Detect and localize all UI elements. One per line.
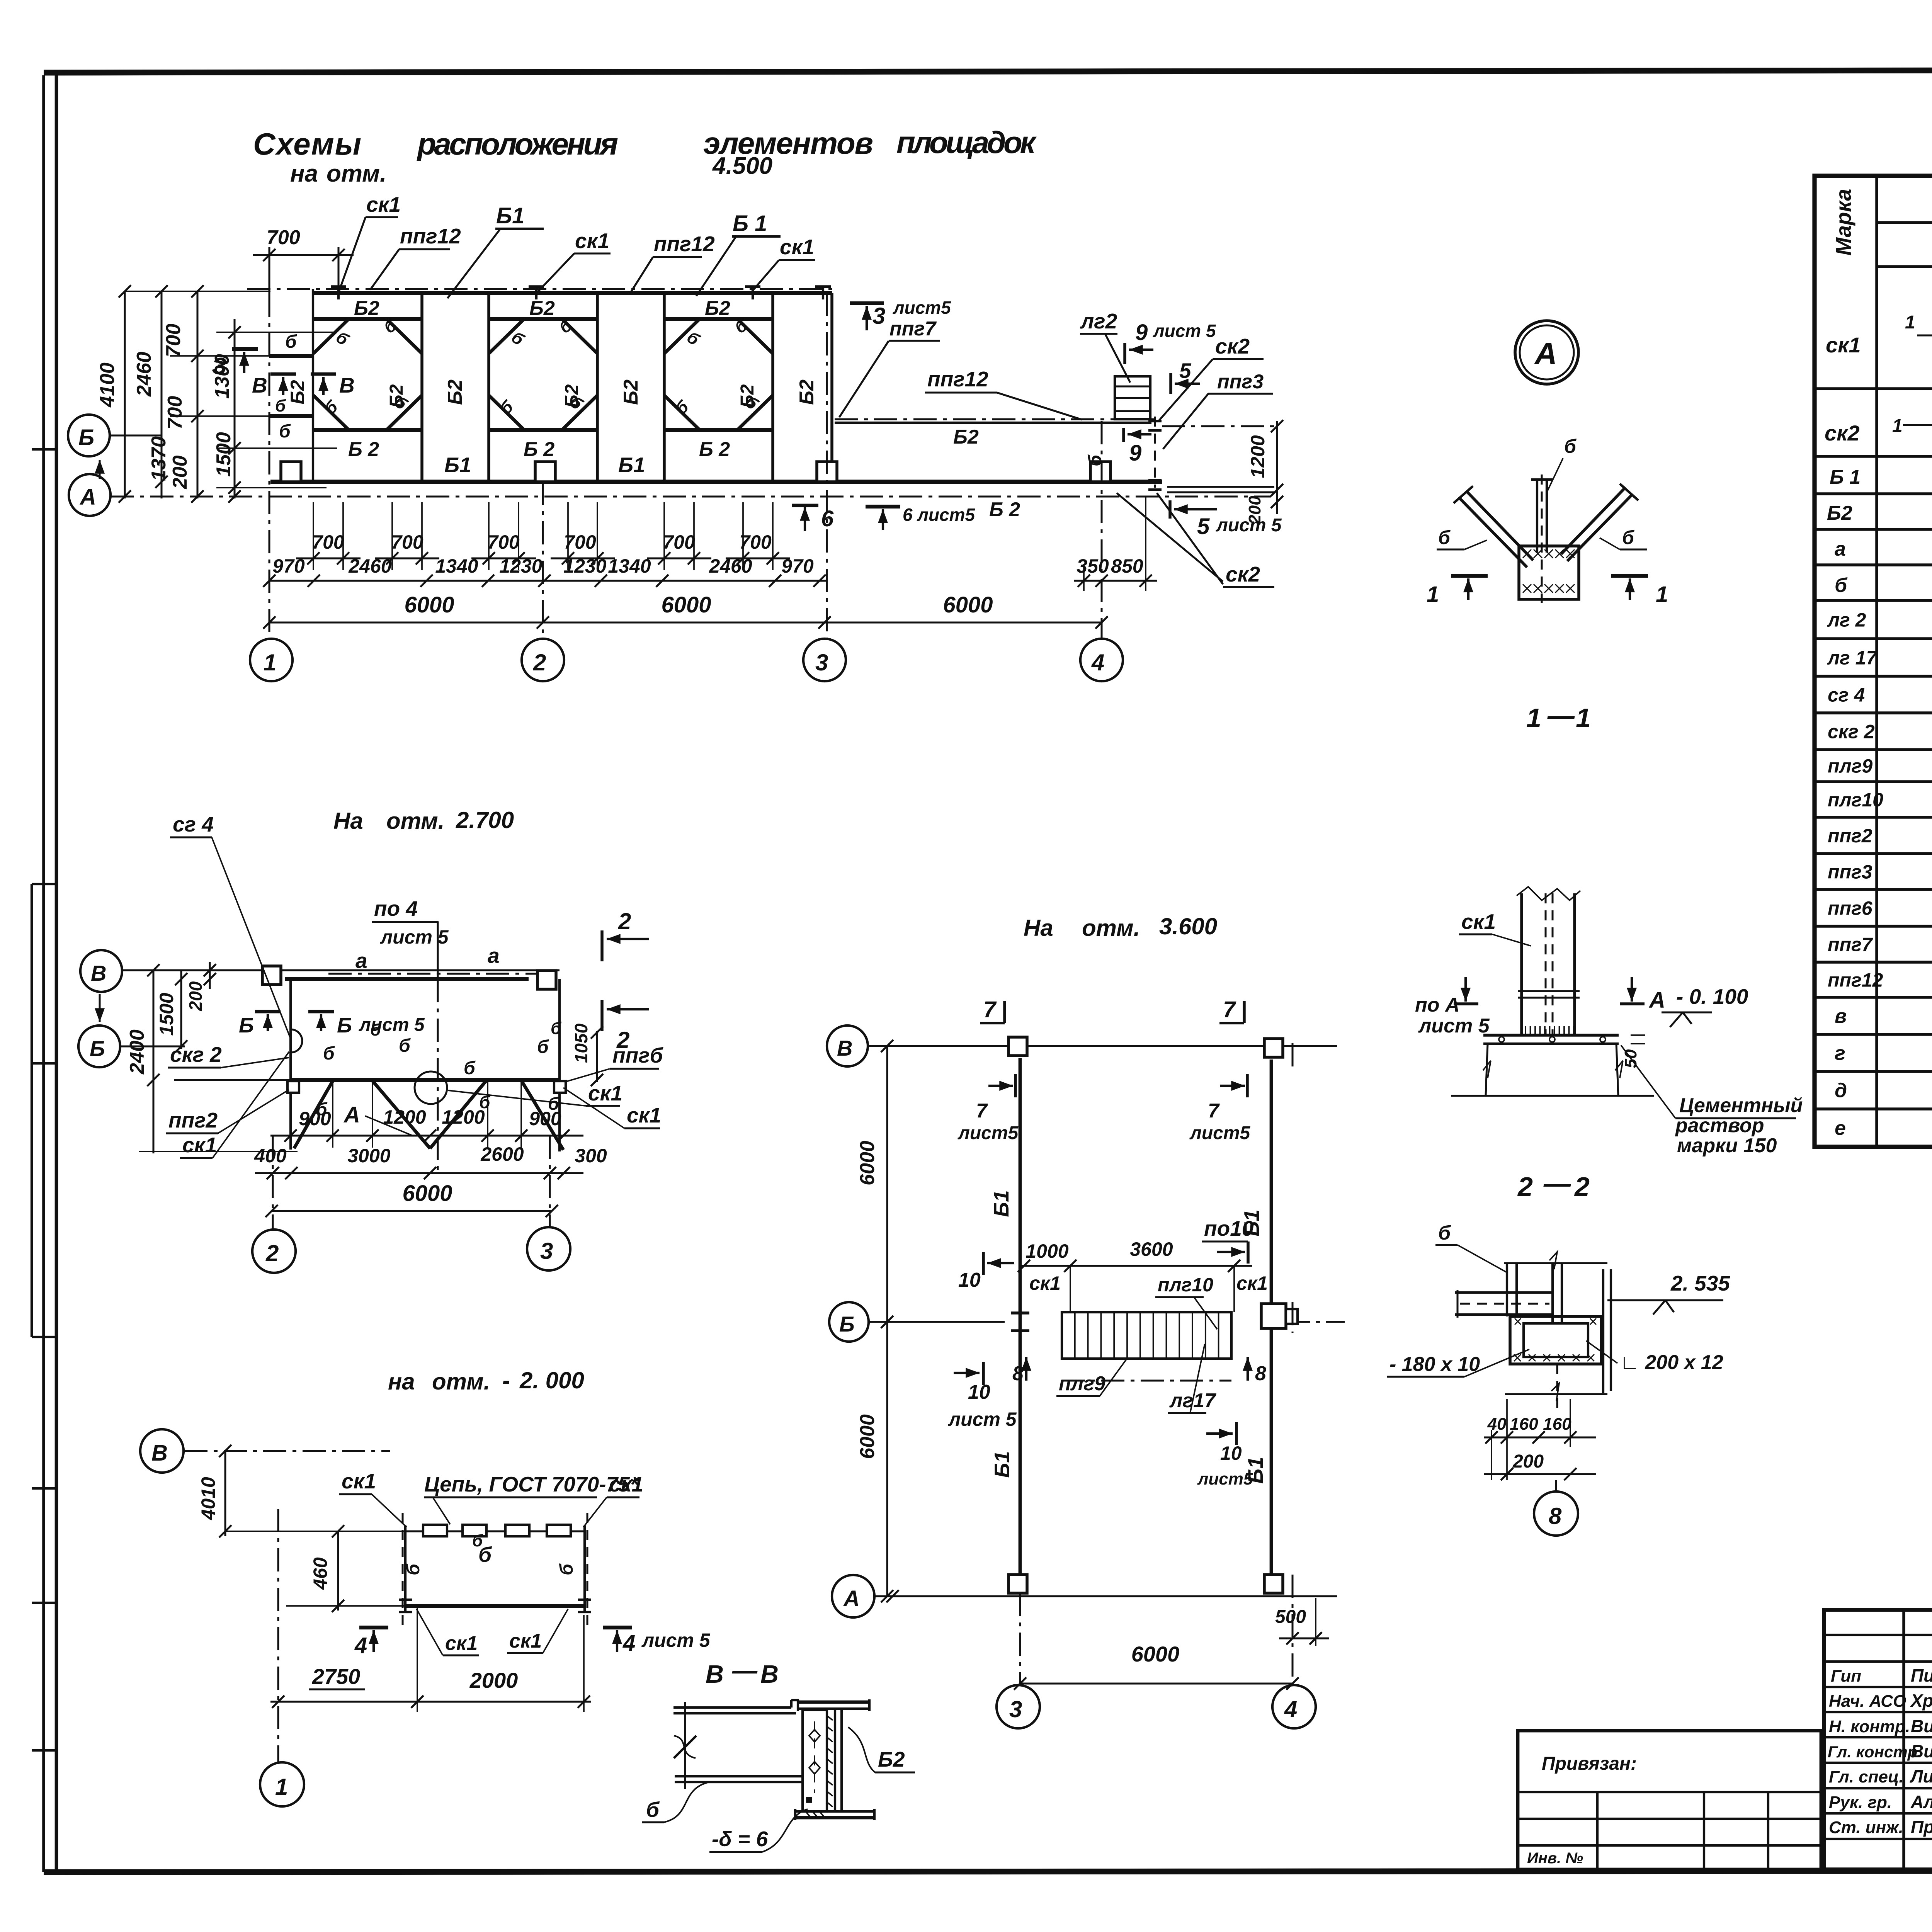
detail В-В left beam bottom lines [675,1775,803,1777]
svg-text:500: 500 [1275,1607,1306,1627]
svg-text:ппг12: ппг12 [654,232,715,256]
plan 4.500 right vertical dim 1200/200 [1276,421,1278,514]
svg-text:1200: 1200 [442,1106,485,1128]
plan -2.000 bottom chord б [405,1604,585,1608]
svg-text:4: 4 [1091,650,1104,675]
svg-text:Б 2: Б 2 [699,438,730,461]
svg-text:6000: 6000 [856,1414,879,1459]
svg-text:Б 1: Б 1 [733,211,767,236]
plan 4.500 dim line 6000x3 [269,622,1102,624]
plan 3.600 grid dash verticals [1019,1593,1021,1685]
detail В-В I-beam bottom flange [795,1810,874,1813]
plan 3.600 axis circle В [827,1026,868,1066]
svg-text:1: 1 [1656,582,1668,607]
plan 4.500 СК1 tick marks on chord [331,285,346,288]
svg-text:В: В [837,1036,852,1060]
svg-text:г: г [1835,1042,1845,1065]
plan 4.500 section mark В left [270,372,296,376]
svg-text:-δ = 6: -δ = 6 [712,1827,768,1851]
svg-text:1: 1 [264,650,276,675]
svg-text:2. 535: 2. 535 [1670,1271,1730,1295]
svg-text:б: б [646,1798,660,1821]
svg-text:2: 2 [618,908,631,934]
svg-text:1230: 1230 [499,555,542,577]
svg-text:по А: по А [1415,994,1460,1016]
axis circle Б [68,415,110,456]
svg-text:лист5: лист5 [893,298,951,318]
plan 4.500 grid verticals to circles [269,294,270,639]
svg-text:В: В [91,961,106,985]
svg-text:700: 700 [312,531,344,553]
svg-text:700: 700 [487,531,520,553]
plan 2.700 dim 6000 [272,1210,552,1212]
svg-text:Б 2: Б 2 [524,438,554,461]
svg-text:лист 5: лист 5 [359,1015,425,1035]
plan 4.500 left bay beam б lower [269,414,313,418]
svg-text:10: 10 [1220,1442,1242,1464]
axis circle А [69,474,111,516]
svg-text:Б1: Б1 [1240,1209,1264,1236]
svg-text:5: 5 [1179,359,1192,383]
svg-text:2: 2 [533,650,546,675]
plan -2.000 chain line [405,1531,585,1532]
svg-text:д: д [1835,1080,1847,1102]
plan 2.700 grid circle 2 [272,1136,274,1229]
svg-text:350: 350 [1077,555,1109,577]
plan 3.600 grid circle 3 [997,1685,1040,1728]
svg-text:9: 9 [1129,440,1141,466]
plan 3.600 stair dash-dot line below [1062,1380,1231,1382]
svg-text:на: на [388,1369,415,1395]
svg-text:6 лист5: 6 лист5 [903,505,976,525]
svg-text:1500: 1500 [213,432,235,477]
svg-text:В: В [252,373,267,397]
plan 3.600 bottom dim 6000 [1020,1683,1293,1685]
svg-text:850: 850 [1111,555,1143,577]
detail В-В bolts [809,1730,820,1742]
svg-text:7: 7 [983,997,997,1022]
svg-text:б: б [497,396,517,418]
plan 4.500 section mark 9 upper [1123,343,1126,364]
svg-text:отм.: отм. [1082,915,1140,941]
svg-text:лист 5: лист 5 [1153,321,1216,341]
svg-text:3: 3 [815,650,828,675]
svg-text:ппг6: ппг6 [1828,898,1873,919]
svg-text:4: 4 [622,1631,635,1656]
plan -2.000 axis В dash line [184,1450,390,1452]
svg-text:-: - [502,1367,510,1393]
svg-text:2000: 2000 [469,1668,518,1692]
svg-text:6000: 6000 [1131,1642,1180,1666]
plan 3.600 left dim 6000 x2 [886,1046,888,1596]
svg-text:ск1: ск1 [342,1469,376,1493]
svg-text:1230: 1230 [563,555,606,577]
plan 2.700 beam а [285,977,529,981]
svg-text:700: 700 [564,531,596,553]
svg-text:1000: 1000 [1026,1240,1068,1262]
svg-text:5: 5 [1197,514,1210,539]
svg-text:160: 160 [1543,1415,1571,1434]
svg-text:б: б [464,1058,476,1078]
plan 3.600 axis А line [874,1595,1337,1597]
svg-text:а: а [1835,538,1846,560]
plan 3.600 section 7 marks below В [988,1085,1013,1087]
truss panel 2 top chord Б2 [489,317,597,321]
plan 3.600 pad at Б x4 [1261,1304,1286,1328]
svg-text:3000: 3000 [347,1145,390,1167]
svg-text:Нач. АСО: Нач. АСО [1829,1692,1906,1711]
plan 4.500 section mark 9 lower [1122,428,1125,442]
plan 2.700 axis circle В [80,950,122,992]
svg-text:Б1: Б1 [496,203,524,228]
svg-text:1: 1 [275,1774,288,1800]
svg-text:Хрупало: Хрупало [1910,1690,1932,1711]
plan -2.000 dim 460 [337,1531,339,1611]
svg-text:Гип: Гип [1831,1667,1861,1685]
svg-text:700: 700 [162,324,185,357]
svg-text:лист 5: лист 5 [948,1408,1017,1430]
svg-text:лист 5: лист 5 [1216,515,1282,536]
svg-text:ппг12: ппг12 [927,367,988,391]
plan 3.600 axis circle Б [829,1302,869,1342]
svg-text:Винклер: Винклер [1911,1716,1932,1736]
plan 4.500 left vertical dim lines [124,291,126,498]
plan 4.500 column pads [281,462,301,482]
svg-text:Б2: Б2 [444,379,466,405]
svg-text:1050: 1050 [571,1023,591,1063]
grid circle 1 [250,639,293,681]
detail 2-2 box [1510,1316,1601,1364]
truss panel 1 bottom chord Б2 [313,428,422,432]
svg-text:700: 700 [391,531,423,553]
svg-text:2. 000: 2. 000 [519,1367,584,1393]
svg-text:а: а [355,949,367,973]
svg-text:Б 2: Б 2 [348,438,379,461]
svg-text:б: б [556,1563,577,1575]
plan -2.000 dim 4010 [224,1451,226,1536]
svg-text:Б1: Б1 [444,453,471,477]
svg-text:1: 1 [1905,312,1915,333]
svg-text:Б: Б [839,1312,855,1336]
svg-text:ск1: ск1 [1236,1272,1268,1294]
svg-text:3: 3 [1009,1696,1022,1722]
svg-text:б: б [1835,574,1848,597]
truss panel 1 diagonals б [313,319,349,354]
detail 1-1 splice lines [1518,990,1580,992]
svg-text:На: На [333,808,363,834]
plan 2.700 axis В line [122,969,560,971]
detail В-В left beam top lines [673,1706,791,1709]
drawing frame bottom border [44,1871,1932,1872]
svg-text:1: 1 [1892,416,1903,436]
detail 2-2 node circle 8 [1534,1492,1578,1536]
detail 1-1 anchor ticks [1525,1026,1526,1035]
arrow between Б and А circles [99,460,101,479]
svg-text:б: б [1438,1222,1451,1244]
svg-text:Б2: Б2 [878,1747,905,1771]
svg-text:ппг3: ппг3 [1828,861,1872,883]
svg-text:Б1: Б1 [618,453,645,477]
plan 4.500 section mark В right [311,372,336,376]
svg-text:В: В [339,373,355,397]
svg-text:700: 700 [739,531,772,553]
svg-text:1200: 1200 [1247,435,1269,478]
svg-text:3: 3 [872,303,885,329]
svg-text:сг 4: сг 4 [1828,684,1865,706]
svg-text:б: б [321,396,342,418]
svg-text:Б2: Б2 [620,379,642,405]
detail node gusset box [1519,546,1579,599]
plan 4.500 section mark 6 pair [804,507,806,531]
plan 3.600 stair block плг [1062,1312,1231,1359]
plan 4.500 beam Б2 right extension [835,418,1155,420]
svg-text:9: 9 [1135,320,1148,345]
svg-text:ск2: ск2 [1825,421,1860,445]
plan 2.700 arrow В to Б [99,994,101,1022]
svg-text:1: 1 [1576,703,1591,733]
svg-text:отм.: отм. [432,1369,490,1395]
svg-text:6000: 6000 [856,1141,879,1185]
plan 3.600 section 10 mark left [982,1252,985,1275]
svg-text:200: 200 [169,456,191,490]
svg-text:970: 970 [781,555,814,577]
svg-text:Б: Б [239,1013,254,1037]
svg-text:б: б [551,1019,562,1038]
axis Б stub line [110,435,162,437]
svg-text:2460: 2460 [133,352,155,397]
truss vertical bars Б2 between panels [420,293,423,482]
plan 4.500 section mark 5 [1169,373,1172,394]
svg-text:Б1: Б1 [990,1451,1014,1478]
svg-text:40: 40 [1487,1415,1507,1434]
title block signature table box [1824,1610,1932,1869]
svg-text:марки 150: марки 150 [1677,1134,1777,1157]
svg-text:ппг12: ппг12 [400,224,461,248]
svg-text:Б1: Б1 [989,1190,1013,1217]
plan 2.700 bottom chord [291,1078,560,1082]
svg-text:А: А [843,1586,860,1611]
svg-text:Б2: Б2 [1827,502,1852,524]
table header row line 1 [1877,221,1932,224]
svg-text:ск1: ск1 [509,1630,542,1652]
truss panel 3 top chord Б2 [664,317,773,321]
svg-text:площадок: площадок [896,125,1037,160]
plan 4.500 chain dim line 970-2460-1340-1230 [269,580,827,582]
svg-text:10: 10 [958,1269,981,1291]
svg-text:4: 4 [354,1633,367,1658]
svg-text:Б2: Б2 [953,426,979,448]
drawing frame inner left line [55,74,58,1872]
grid circle 4 [1080,639,1123,681]
svg-text:6: 6 [821,506,834,531]
plan 3.600 beam Б1 left [1019,1058,1022,1575]
svg-text:расположения: расположения [417,127,618,161]
title block privyazan table [1518,1731,1821,1869]
detail В-В gusset plate [803,1710,827,1811]
svg-text:- 180 x 10: - 180 x 10 [1389,1353,1480,1376]
drawing frame top border [44,70,1932,73]
svg-text:отм.: отм. [327,160,386,187]
svg-text:плг10: плг10 [1828,789,1883,811]
plan 3.600 axis В line [868,1045,1337,1047]
svg-text:4100: 4100 [96,362,119,408]
svg-text:1500: 1500 [156,993,177,1036]
table body horizontal lines [1815,387,1932,390]
svg-text:ппг2: ппг2 [168,1108,218,1132]
plan 4.500 bottom 700 dims [313,502,314,570]
plan 2.700 left vertical [289,979,292,1150]
detail 1-1 foundation break [1486,1044,1488,1095]
svg-text:лист5: лист5 [1189,1123,1251,1143]
plan 3.600 dim 1000 3600 [1020,1265,1252,1267]
table header row line 2 [1877,265,1932,268]
svg-text:1300: 1300 [211,354,233,399]
svg-text:ппг7: ппг7 [889,318,937,340]
svg-text:ск1: ск1 [575,229,609,253]
svg-text:е: е [1835,1117,1846,1139]
svg-text:ппг3: ппг3 [1217,371,1264,393]
drawing frame outer left line [42,75,45,1872]
plan 3.600 section 10 lower right [1235,1422,1238,1445]
detail node 1-1 column [1536,480,1538,553]
svg-text:2600: 2600 [480,1143,524,1165]
svg-text:Б1: Б1 [1243,1457,1267,1484]
svg-text:Цепь, ГОСТ 7070-75*: Цепь, ГОСТ 7070-75* [424,1472,639,1496]
plan 4.500 left bay vertical Б2 [312,289,314,482]
svg-text:6000: 6000 [404,592,454,617]
detail 2-2 beam from left [1455,1291,1553,1294]
svg-text:300: 300 [575,1145,607,1167]
svg-text:б: б [472,1531,483,1550]
svg-text:б: б [279,421,291,442]
svg-text:∟ 200 x 12: ∟ 200 x 12 [1620,1351,1723,1374]
detail mark А double circle [1515,321,1578,384]
svg-text:Цементный: Цементный [1679,1094,1803,1117]
svg-text:1370: 1370 [148,436,170,481]
svg-text:б: б [1622,527,1635,548]
svg-text:лист5: лист5 [957,1123,1019,1143]
plan 3.600 axis circle А [832,1575,874,1617]
plan -2.000 axis circle В [140,1429,184,1473]
svg-text:200: 200 [185,981,206,1011]
svg-text:А: А [1534,336,1557,371]
svg-text:Б2: Б2 [287,380,308,404]
svg-text:4010: 4010 [197,1477,219,1520]
plan 4.500 left bay beam б upper [269,354,313,358]
svg-text:Алехова: Алехова [1910,1792,1932,1812]
detail 2-2 top break and verticals [1504,1262,1607,1264]
svg-text:4.500: 4.500 [712,153,772,179]
svg-text:б: б [1438,527,1451,548]
truss panel 2 bottom chord Б2 [489,428,597,432]
svg-text:Привязан:: Привязан: [1542,1753,1637,1774]
svg-text:ппг2: ппг2 [1828,825,1872,847]
plan 2.700 axis Б stub [120,1046,185,1048]
svg-text:460: 460 [310,1557,331,1590]
svg-text:ск1: ск1 [182,1133,217,1157]
svg-text:2.700: 2.700 [456,807,514,833]
plan 3.600 section 8 arrows [1025,1357,1027,1381]
plan 2.700 axis circle Б [78,1026,120,1067]
detail В-В I-beam top flange [798,1701,869,1704]
truss panel 2 diagonals б [489,319,524,354]
svg-text:лг2: лг2 [1080,309,1117,333]
grid circle 2 [522,639,564,681]
svg-text:ск1: ск1 [1029,1272,1061,1294]
svg-text:3600: 3600 [1130,1238,1173,1260]
title block signature rows [1824,1634,1932,1636]
left edge fold marks [32,448,56,451]
svg-text:На: На [1024,915,1053,941]
plan -2.000 section 4 marks [359,1626,388,1629]
svg-text:2: 2 [1574,1172,1590,1202]
svg-text:лг 2: лг 2 [1827,609,1866,631]
svg-text:700: 700 [267,226,300,249]
svg-text:1340: 1340 [608,555,651,577]
plan 2.700 grid circle 3 [549,1136,551,1227]
svg-text:Рук. гр.: Рук. гр. [1829,1793,1892,1812]
svg-text:а: а [488,944,500,968]
plan 4.500 axis А dash-dot line [111,496,1271,498]
truss panel 3 diagonals б [664,319,700,354]
svg-text:скг 2: скг 2 [1828,721,1875,743]
plan -2.000 grid 1 vertical and circle [277,1509,279,1762]
plan 4.500 bottom chord Б1 [270,480,1162,484]
svg-text:Пивторак: Пивторак [1911,1665,1932,1685]
svg-text:б: б [323,1043,335,1064]
svg-text:б: б [275,396,286,415]
svg-text:7: 7 [1208,1100,1220,1122]
plan 2.700 node circle СК1 [415,1071,447,1104]
svg-text:Ст. инж.: Ст. инж. [1829,1818,1903,1837]
detail 1-1 column base columns [1520,893,1523,1035]
svg-text:- 0. 100: - 0. 100 [1676,985,1748,1009]
plan 2.700 dim row 400-3000-2600-300 [255,1172,583,1174]
svg-text:плг9: плг9 [1828,755,1872,777]
plan 4.500 axis ппг12 dash-dot top chord line [247,288,837,290]
svg-text:ск2: ск2 [1226,562,1260,586]
svg-text:—: — [1543,1168,1571,1198]
svg-text:ск1: ск1 [1826,333,1861,357]
plan 2.700 right vertical [558,979,561,1151]
plan 2.700 left dims [153,970,155,1153]
svg-text:лист 5: лист 5 [1418,1015,1490,1037]
detail В-В I-beam web [834,1709,836,1811]
plan -2.000 ext lines [225,1531,405,1532]
svg-text:Винклер: Винклер [1911,1741,1932,1761]
svg-text:4: 4 [1284,1696,1297,1722]
detail node section 1 marks [1451,574,1488,578]
svg-text:ск2: ск2 [1215,334,1250,358]
svg-text:700: 700 [663,531,695,553]
svg-text:Б2: Б2 [796,379,818,405]
svg-text:3: 3 [540,1238,553,1264]
svg-text:2460: 2460 [348,555,391,577]
svg-text:лист 5: лист 5 [641,1629,711,1651]
svg-text:В: В [151,1440,168,1466]
svg-text:700: 700 [164,396,186,430]
plan 4.500 chain dim 350 850 [1074,580,1157,582]
svg-text:8: 8 [1012,1362,1024,1385]
svg-text:ск1: ск1 [627,1103,661,1127]
svg-text:б: б [1085,454,1105,466]
svg-text:—: — [732,1656,758,1684]
svg-text:Марка: Марка [1831,189,1855,256]
plan 4.500 left dim extension lines [125,291,270,292]
plan -2.000 rect verticals [404,1526,406,1611]
plan 3.600 section 10 lower left [982,1362,985,1385]
grid circle 3 [803,639,846,681]
